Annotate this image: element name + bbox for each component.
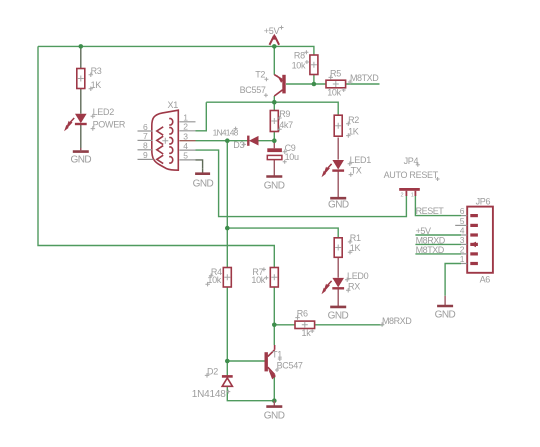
JP6 pin 2 stub — [460, 245, 467, 255]
label R8 value 10k — [292, 50, 309, 70]
JP6 pin 4 stub — [460, 226, 467, 236]
svg-text:10k: 10k — [327, 87, 341, 97]
wire JP6 pin4 +5V — [415, 234, 461, 236]
resistor R6 — [295, 321, 315, 328]
transistor T2 — [274, 75, 284, 96]
X1 pin 7 stub — [138, 131, 153, 141]
JP6 pad 3 — [470, 242, 478, 248]
svg-text:GND: GND — [71, 155, 92, 166]
junction D3 pin3 — [225, 138, 230, 143]
label +5V — [264, 26, 284, 37]
wire JP6 pin3 M8RXD — [415, 243, 461, 245]
label D3 value 1N4148 — [213, 127, 246, 150]
wire X1 pin3 to D3 — [196, 140, 249, 142]
svg-text:6: 6 — [460, 206, 465, 216]
JP6 pad 2 — [470, 252, 478, 255]
label LED0 value RX — [345, 271, 369, 293]
label C9 value 10u — [283, 143, 299, 162]
wire D2 to emitter node — [227, 386, 274, 401]
X1 contact pin7 — [157, 136, 163, 144]
label T1 BC547 — [272, 350, 303, 372]
connector JP6 — [467, 207, 493, 273]
X1 contact pin9 — [157, 155, 163, 163]
wire T2 base to R5 — [286, 83, 326, 85]
wire R1 to LED0 — [337, 257, 339, 278]
svg-text:1k: 1k — [302, 328, 312, 338]
ground below LED0 — [328, 307, 349, 322]
label net M8RXD JP6 — [416, 235, 446, 245]
svg-text:1: 1 — [411, 193, 414, 199]
svg-text:M8RXD: M8RXD — [416, 235, 446, 245]
junction emitter D2 — [272, 398, 277, 403]
svg-text:T1: T1 — [272, 350, 282, 360]
X1 pin 6 stub — [138, 122, 153, 132]
wire D3 anode link — [258, 140, 274, 142]
svg-text:10k: 10k — [292, 61, 306, 71]
svg-text:2: 2 — [460, 245, 465, 255]
svg-text:AUTO RESET: AUTO RESET — [384, 170, 439, 180]
svg-text:M8RXD: M8RXD — [382, 316, 412, 326]
label R5 value 10k — [327, 68, 346, 97]
svg-text:BC557: BC557 — [240, 85, 266, 95]
wire X1 pin2 riser — [196, 102, 207, 131]
svg-text:A6: A6 — [480, 274, 491, 284]
wire R3 top pin — [80, 46, 82, 68]
svg-text:M8TXD: M8TXD — [350, 73, 379, 83]
X1 pin 2 stub — [179, 122, 195, 132]
svg-text:+5V: +5V — [264, 26, 280, 36]
svg-text:1: 1 — [460, 254, 465, 264]
wire T1 emitter to ground — [273, 377, 275, 401]
wire +5V drop to T2 emitter — [273, 46, 275, 74]
ground below JP6 — [435, 296, 456, 321]
wire C9 to ground — [273, 160, 275, 177]
label net M8RXD — [380, 316, 412, 327]
wire LED2 to ground — [80, 124, 82, 151]
JP6 pin 3 stub — [460, 235, 467, 245]
wire R6 left pin — [274, 324, 295, 326]
wire R4 to T1 base column — [226, 287, 228, 375]
X1 contact pin6 — [157, 127, 163, 135]
label D2 value 1N4148 — [192, 366, 231, 400]
X1 contact pin5 — [169, 157, 173, 163]
svg-text:GND: GND — [264, 411, 285, 422]
svg-text:+5V: +5V — [416, 226, 431, 236]
ground below X1 pin5 — [193, 169, 214, 190]
wire R2 to LED1 — [337, 138, 339, 160]
label R9 value 4k7 — [277, 109, 293, 131]
ground below LED2 — [71, 148, 92, 166]
X1 pin 4 stub — [179, 141, 195, 151]
svg-text:BC547: BC547 — [277, 361, 303, 371]
junction T1 base D2 — [225, 359, 230, 364]
svg-text:GND: GND — [328, 310, 349, 321]
svg-text:GND: GND — [264, 180, 285, 191]
label LED2 POWER — [91, 107, 126, 131]
resistor R1 — [334, 238, 342, 257]
svg-text:GND: GND — [328, 200, 349, 211]
label R3 value 1K — [89, 66, 102, 91]
svg-text:9: 9 — [143, 150, 148, 160]
wire left rail to R7 — [38, 46, 274, 267]
resistor R4 — [223, 268, 231, 288]
svg-text:JP6: JP6 — [476, 197, 491, 207]
svg-text:5: 5 — [460, 216, 465, 226]
JP6 pad 6 — [470, 214, 478, 217]
junction R6 collector — [272, 323, 277, 328]
svg-text:10u: 10u — [285, 152, 299, 162]
transistor T1 — [266, 345, 275, 379]
svg-text:D3: D3 — [233, 140, 244, 150]
JP6 pad 1 — [470, 262, 478, 265]
wire JP6 pin2 M8TXD — [415, 253, 461, 255]
svg-text:X1: X1 — [168, 100, 179, 110]
resistor R3 — [77, 69, 85, 89]
capacitor C9 — [267, 148, 286, 164]
svg-text:POWER: POWER — [93, 120, 126, 130]
svg-text:RESET: RESET — [416, 206, 445, 216]
X1 contact pin1 — [169, 119, 173, 125]
label JP4 AUTO RESET — [384, 156, 440, 181]
wire T1 base — [227, 360, 264, 362]
wire X1 pin5 to ground — [196, 160, 203, 169]
svg-text:4: 4 — [183, 141, 188, 151]
label JP6 — [476, 197, 491, 207]
wire X1 pin4 to JP4 pin2 — [196, 150, 407, 217]
label R7 value 10k — [251, 267, 268, 285]
resistor R7 — [270, 268, 278, 288]
svg-text:LED0: LED0 — [347, 271, 369, 281]
svg-text:10k: 10k — [251, 275, 265, 285]
wire +5V top rail — [38, 46, 314, 55]
wire node to R1 — [227, 228, 338, 238]
X1 pin 8 stub — [138, 141, 153, 151]
svg-text:8: 8 — [143, 141, 148, 151]
svg-text:2: 2 — [183, 122, 188, 132]
wire R3 to LED2 — [80, 89, 82, 114]
label R6 value 1k — [295, 309, 314, 338]
wire R5 to M8TXD — [346, 83, 380, 85]
diode D3 — [248, 136, 258, 146]
wire R8 bottom pin — [313, 75, 315, 85]
connector X1 body — [152, 110, 179, 170]
label A6 — [480, 274, 491, 284]
wire JP4 pin1 to RESET — [415, 196, 461, 216]
X1 contact pin2 — [169, 128, 173, 134]
label X1 — [168, 100, 179, 110]
svg-text:M8TXD: M8TXD — [416, 245, 445, 255]
svg-text:5: 5 — [183, 151, 188, 161]
LED LED2 — [64, 114, 87, 132]
junction +5V T2 — [272, 44, 277, 49]
resistor R5 — [326, 80, 346, 88]
svg-text:LED1: LED1 — [350, 155, 372, 165]
junction R8 base — [312, 82, 317, 87]
resistor R9 — [270, 111, 278, 132]
X1 contact pin8 — [157, 146, 163, 154]
wire node column to R4 — [226, 141, 228, 268]
JP6 pin 6 stub — [460, 206, 467, 216]
label net RESET — [416, 206, 445, 216]
wire collector net to R2 — [206, 102, 338, 115]
JP6 pin 1 stub — [460, 254, 467, 264]
wire LED1 to ground — [337, 171, 339, 198]
resistor R2 — [334, 115, 342, 136]
X1 pin 9 stub — [138, 150, 154, 160]
svg-text:T2: T2 — [255, 69, 265, 79]
JP6 pad 5 — [470, 224, 478, 227]
ground below LED1 — [328, 198, 349, 210]
JP6 pin 5 stub — [455, 216, 467, 226]
svg-text:3: 3 — [460, 235, 465, 245]
label net +5V JP6 — [416, 226, 431, 236]
X1 contact pin4 — [169, 147, 173, 153]
junction R4 R1 branch — [225, 226, 230, 231]
label R1 value 1K — [348, 233, 361, 255]
LED LED1 — [322, 160, 345, 177]
X1 pin 5 stub — [179, 151, 195, 161]
label R4 value 10k — [205, 267, 222, 287]
supply +5V symbol — [270, 34, 280, 45]
X1 pin 1 stub — [179, 113, 195, 123]
wire R9 top pin — [273, 102, 275, 110]
junction +5V R3 — [79, 44, 84, 49]
wire R9 bottom pin — [273, 132, 275, 141]
label R2 value 1K — [346, 115, 359, 138]
svg-text:1N4148: 1N4148 — [192, 389, 226, 400]
jumper JP4 — [399, 188, 420, 199]
ground below C9 — [264, 177, 285, 192]
label LED1 value TX — [348, 155, 372, 177]
wire JP6 pin1 to ground — [445, 264, 461, 296]
wire R7 to T1 collector — [273, 287, 275, 345]
junction D3 C9 — [272, 138, 277, 143]
svg-text:GND: GND — [193, 179, 214, 190]
label net M8TXD JP6 — [416, 245, 445, 255]
ground below T1 — [264, 401, 285, 422]
wire T2 collector link — [273, 96, 275, 102]
wire C9 top pin — [273, 141, 275, 149]
svg-text:GND: GND — [435, 309, 456, 320]
svg-text:LED2: LED2 — [93, 107, 115, 117]
wire LED0 to ground — [337, 288, 339, 306]
wire R6 to M8RXD — [315, 324, 384, 326]
X1 contact pin3 — [169, 138, 173, 144]
X1 pin 3 stub — [179, 132, 195, 142]
LED LED0 — [322, 278, 345, 294]
diode D2 — [222, 376, 233, 386]
svg-text:2: 2 — [401, 193, 404, 199]
resistor R8 — [310, 55, 318, 75]
JP6 pad 4 — [470, 233, 478, 236]
label net M8TXD — [348, 73, 379, 84]
svg-text:R8: R8 — [294, 50, 305, 60]
junction collector R9 — [272, 100, 277, 105]
label T2 BC557 — [240, 69, 269, 97]
